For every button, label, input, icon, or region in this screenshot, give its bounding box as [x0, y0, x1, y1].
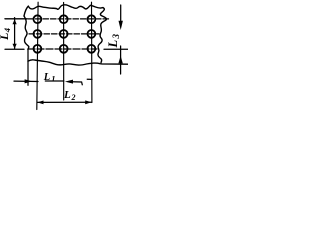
svg-text:L1: L1	[43, 72, 56, 84]
svg-text:L4: L4	[0, 28, 12, 41]
